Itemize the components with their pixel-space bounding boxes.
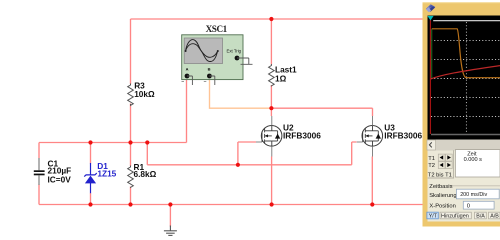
wire U3 gate branch (352, 142, 357, 165)
graticule bottom line (431, 134, 500, 136)
Ext Trig terminal (235, 56, 240, 61)
svg-text:T1: T1 (428, 156, 435, 162)
wire R3 top lead (130, 19, 132, 84)
panel icon (426, 4, 435, 12)
svg-text:XSC1: XSC1 (206, 24, 228, 34)
svg-text:Ext Trig: Ext Trig (227, 49, 242, 54)
scope panel window (423, 2, 500, 227)
svg-text:IRFB3006: IRFB3006 (384, 131, 422, 141)
svg-text:0.000 s: 0.000 s (464, 157, 483, 163)
control area (428, 151, 500, 222)
wire R1 bottom lead (130, 187, 132, 205)
svg-text:IC=0V: IC=0V (48, 174, 72, 184)
wire C1 top lead (38, 143, 40, 159)
node mid rail / R3-R1 (128, 140, 132, 144)
scrollbar row (428, 140, 500, 151)
svg-text:A: A (186, 67, 189, 72)
cursor T1 red line (429, 20, 431, 134)
node bottom rail / U2 source (270, 202, 274, 206)
wire scope A vertical (186, 78, 188, 143)
wire U2 gate branch (238, 142, 256, 165)
node bottom rail / ground (168, 202, 172, 206)
cursor flag cyan (427, 16, 433, 21)
wire ground stem (169, 205, 171, 227)
svg-text:IRFB3006: IRFB3006 (283, 131, 321, 141)
wire D1 top lead (90, 143, 92, 164)
wire R3 bottom to mid rail (130, 104, 132, 143)
node bottom rail / D1 (88, 202, 92, 206)
wire mid rail (39, 142, 187, 144)
trace channel A red (431, 66, 500, 79)
svg-text:6.8kΩ: 6.8kΩ (134, 169, 157, 179)
resistor Last1 1ohm (269, 64, 275, 86)
svg-text:X-Position: X-Position (429, 203, 455, 209)
cursor tab panel (428, 150, 454, 178)
readout box (455, 150, 500, 177)
svg-text:10kΩ: 10kΩ (134, 89, 155, 99)
trace channel B orange (432, 29, 500, 78)
transistor U3 IRFB3006 (357, 116, 383, 157)
resistor R3 10k (128, 84, 134, 106)
wire top rail (131, 18, 424, 20)
scope channel B orange wire (210, 78, 272, 108)
wire D1 bottom lead (90, 193, 92, 205)
node mid rail / gate branch (145, 140, 149, 144)
svg-text:Skalierung: Skalierung (429, 193, 456, 199)
svg-text:B/A: B/A (476, 214, 485, 220)
svg-text:1Z15: 1Z15 (97, 169, 116, 179)
Zeitbasis group (449, 185, 500, 187)
svg-text:Hinzufügen: Hinzufügen (441, 214, 469, 220)
wire U3 drain (372, 108, 374, 116)
capacitor C1 (34, 158, 45, 185)
label R3 (48, 65, 423, 185)
scope screen (428, 16, 500, 140)
svg-text:T2: T2 (428, 163, 435, 169)
sine wave small (186, 44, 218, 58)
resistor R1 6.8k (128, 166, 134, 188)
wire R1 top lead (130, 143, 132, 167)
node bottom rail / R1 (128, 202, 132, 206)
node mid rail / D1 (88, 140, 92, 144)
polarity ticks (182, 81, 207, 83)
wire drain rail y108 (271, 107, 372, 109)
wire U3 source (371, 157, 373, 205)
node top rail / Last1 (269, 17, 273, 21)
wire U2 drain (270, 108, 272, 116)
svg-text:B: B (208, 67, 211, 72)
wire U2 source (271, 157, 273, 205)
wire Last1 top lead (270, 19, 272, 65)
ground (164, 226, 177, 236)
dashed gridlines (431, 22, 500, 134)
wire C1 bottom lead (38, 185, 40, 205)
zener diode D1 (84, 163, 97, 193)
wire gate branch vertical (146, 143, 148, 165)
wire bottom rail (39, 204, 430, 206)
wire gate bus horizontal (147, 164, 351, 166)
node bottom rail / U3 source (370, 202, 374, 206)
oscilloscope XSC1 icon (182, 35, 253, 85)
svg-text:Zeitbasis: Zeitbasis (429, 184, 452, 190)
svg-text:1Ω: 1Ω (275, 73, 287, 83)
node drain rail / Last1 bottom (269, 106, 273, 110)
node gate bus / U2 gate (236, 163, 240, 167)
buttons Y/T Hinzufuegen B/A A/B (427, 212, 438, 219)
transistor U2 IRFB3006 (256, 116, 282, 157)
graticule top line (433, 20, 500, 22)
wire Last1 bottom to node (270, 85, 272, 108)
svg-text:Y/T: Y/T (429, 214, 438, 220)
svg-text:200 ms/Div: 200 ms/Div (460, 192, 487, 198)
svg-text:A/B: A/B (490, 214, 499, 220)
sine wave big (186, 40, 218, 62)
svg-text:T2 bis T1: T2 bis T1 (428, 172, 452, 178)
cursor T2 green line (431, 29, 433, 78)
svg-text:0: 0 (467, 203, 470, 209)
